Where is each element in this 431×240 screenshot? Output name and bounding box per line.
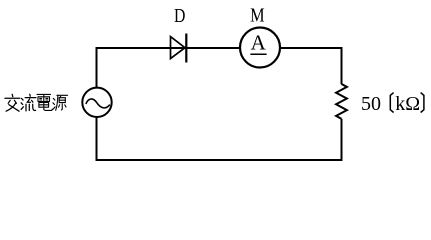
svg-text:A: A <box>251 31 267 55</box>
resistor zigzag <box>336 84 347 119</box>
bracket open <box>390 93 393 113</box>
label 交流電源 (hand-drawn kanji) <box>5 94 68 111</box>
svg-text:M: M <box>250 5 265 27</box>
wire right rail lower <box>341 119 343 161</box>
kanji 交 <box>5 94 20 111</box>
wire right rail upper <box>341 47 343 84</box>
ammeter A underline <box>250 53 266 55</box>
bracket close <box>421 93 424 113</box>
wire left rail upper <box>96 47 98 88</box>
AC source circle <box>82 88 111 117</box>
diode D cathode bar <box>185 34 187 63</box>
wire top rail right segment (ammeter to corner) <box>280 47 342 49</box>
kanji 電 <box>37 94 52 110</box>
svg-text:D: D <box>174 5 185 27</box>
kanji 流 <box>21 94 36 111</box>
wire left rail lower <box>96 117 98 161</box>
wire top rail left segment (corner to diode) <box>97 47 241 49</box>
svg-text:50: 50 <box>361 93 381 115</box>
diode D triangle (anode) <box>171 37 186 59</box>
svg-text:kΩ: kΩ <box>395 93 420 115</box>
AC source sine wave <box>86 99 110 108</box>
kanji 源 <box>53 95 68 110</box>
ammeter M circle <box>240 28 280 68</box>
wire bottom rail <box>96 159 343 161</box>
